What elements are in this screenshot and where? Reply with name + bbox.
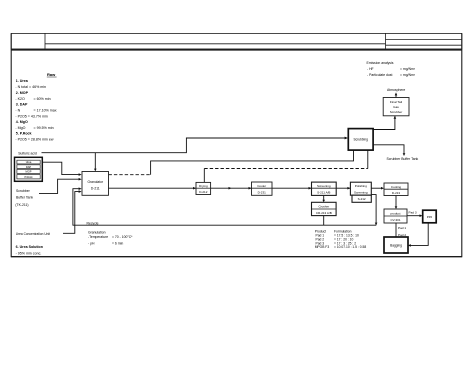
svg-text:= 6 min: = 6 min (112, 241, 123, 245)
svg-text:D-212: D-212 (199, 190, 208, 194)
bagging (384, 237, 408, 253)
title block divider right cell (385, 33, 387, 49)
wire: final tail gas scrubber to atmosphere (395, 95, 397, 98)
svg-text:D-211: D-211 (91, 186, 100, 190)
svg-text:- 95% min conc.: - 95% min conc. (16, 251, 42, 255)
urea solution note (16, 245, 43, 255)
svg-text:Scrubber: Scrubber (16, 189, 31, 193)
svg-text:P.Rock: P.Rock (24, 175, 33, 179)
wire: product to P45 (407, 215, 421, 217)
svg-text:CR-213 A/B: CR-213 A/B (316, 211, 332, 215)
wire: scrubber buffer tank to granulator (39, 179, 79, 193)
svg-text:Final Tail: Final Tail (390, 100, 402, 104)
drying D-212 (196, 182, 211, 194)
heavy line below title block (11, 49, 462, 51)
svg-text:4. MgO: 4. MgO (16, 120, 28, 124)
frame left border (10, 33, 12, 257)
bin cell MOP (17, 169, 40, 173)
title block outer rect (11, 33, 462, 49)
polishing screening (350, 182, 371, 195)
wire: drying gas risers (203, 169, 205, 183)
svg-text:Scrubbing: Scrubbing (354, 138, 369, 142)
bin cell DAP (17, 165, 40, 169)
arrow into crusher (322, 200, 325, 203)
final tail gas scrubber (383, 98, 409, 116)
svg-text:Cooling: Cooling (391, 185, 402, 189)
raw list item 1 Urea (15, 79, 56, 142)
wire: crusher to recycle (323, 216, 325, 226)
svg-text:Crusher: Crusher (318, 205, 329, 209)
bin cell Urea (17, 160, 40, 164)
wire: polishing screening return to recycle (371, 195, 376, 226)
polishing screening tag S-212 (352, 195, 371, 202)
wire: granulator gas to scrubbing (dashed part) (109, 174, 151, 176)
wire: granulator gas riser and run (151, 150, 354, 175)
svg-text:S-211 A/B: S-211 A/B (317, 191, 330, 195)
svg-text:- K2O: - K2O (15, 97, 25, 101)
arrow into drying (193, 187, 196, 190)
svg-text:product: product (390, 211, 400, 215)
screening S-211 A/B (312, 182, 337, 195)
scrubbing (348, 129, 373, 151)
P45 storage (423, 210, 437, 223)
wire: urea concentration unit to granulator (63, 192, 79, 234)
title block right cell row divider 2 (386, 44, 462, 46)
wire: scrubbing to scrubber buffer tank label (373, 145, 404, 154)
product formulation table (315, 230, 367, 250)
svg-text:Urea Concentration Unit: Urea Concentration Unit (16, 232, 50, 236)
svg-text:Granulation: Granulation (88, 231, 106, 235)
wire: bins to granulator (42, 162, 79, 174)
wire: screening to crusher (323, 195, 325, 201)
arrow into granulator: bins feed (79, 173, 82, 176)
raw material bins box (15, 157, 43, 181)
svg-text:5. P.Rock: 5. P.Rock (16, 132, 32, 136)
svg-text:D-231: D-231 (258, 191, 267, 195)
wire: recycle line (73, 189, 376, 226)
arrow mid line drying-cooler (229, 187, 232, 190)
svg-text:Urea: Urea (26, 160, 32, 164)
arrow polishing return down (375, 223, 378, 226)
arrow into scrubbing (sulfuric) (345, 137, 348, 140)
granulation condition note (88, 231, 133, 246)
wire: product to bagging (395, 223, 397, 237)
svg-text:Sulfuric acid: Sulfuric acid (18, 151, 37, 155)
arrow into bagging right (408, 244, 411, 247)
svg-text:- N total = 46% min: - N total = 46% min (15, 85, 46, 89)
svg-text:Gas: Gas (393, 105, 399, 109)
bin cell P.Rock (17, 175, 40, 179)
svg-text:Raw: Raw (47, 72, 56, 77)
arrow into granulator top (sulfuric) (94, 169, 97, 172)
svg-text:Atmosphere: Atmosphere (387, 88, 405, 92)
svg-text:D-213: D-213 (392, 191, 401, 195)
svg-text:Screening: Screening (317, 184, 331, 188)
svg-text:- HF: - HF (367, 67, 374, 71)
cooling D-213 (384, 183, 408, 196)
svg-text:= 99.5% min: = 99.5% min (34, 126, 54, 130)
cooler D-231 (252, 182, 273, 195)
wire: scrubbing to final tail gas scrubber (373, 116, 395, 130)
wire: sulfuric acid main run (42, 138, 347, 153)
svg-text:Emission analysis: Emission analysis (367, 61, 394, 65)
svg-text:Buffer Tank: Buffer Tank (16, 195, 33, 199)
svg-text:- P2O5 = 43.7% min: - P2O5 = 43.7% min (15, 114, 47, 118)
wire: sulfuric acid branch to granulator top (94, 153, 96, 169)
svg-text:MPOB F3: MPOB F3 (315, 245, 330, 249)
arrow into cooling (381, 187, 384, 190)
frame bottom border (11, 256, 462, 258)
svg-text:Pad 3: Pad 3 (409, 211, 417, 215)
svg-text:= 70 - 100°C*: = 70 - 100°C* (112, 235, 133, 239)
svg-text:Polishing: Polishing (355, 184, 368, 188)
svg-text:= 10.07.10 : 1.5 : 0.58: = 10.07.10 : 1.5 : 0.58 (334, 245, 366, 249)
arrow into product top (395, 206, 398, 209)
wire: main process line (109, 187, 351, 189)
wire: cooling to product (395, 196, 397, 208)
svg-text:1. Urea: 1. Urea (16, 79, 29, 83)
arrow into cooler (249, 187, 252, 190)
wire: drying gas dashed run (204, 168, 367, 170)
svg-text:CV-301: CV-301 (390, 218, 400, 222)
arrow into granulator: scrubber liquor (79, 178, 82, 181)
arrow into P45 (420, 214, 423, 217)
svg-text:3. DAP: 3. DAP (16, 103, 28, 107)
svg-text:Scrubber Buffer Tank: Scrubber Buffer Tank (387, 157, 419, 161)
title block right cell row divider 1 (386, 39, 462, 41)
svg-text:DAP: DAP (26, 165, 32, 169)
label: scrubber buffer tank (left) (15, 189, 33, 207)
svg-text:- pH: - pH (88, 241, 95, 245)
svg-text:(TK-211): (TK-211) (15, 203, 28, 207)
svg-text:Scrubber: Scrubber (390, 110, 403, 114)
title block divider left cell (44, 33, 46, 49)
svg-text:2. MOP: 2. MOP (16, 91, 29, 95)
arrow into screening (309, 187, 312, 190)
svg-text:S-212: S-212 (358, 197, 366, 201)
wire: P45 to bagging (410, 223, 429, 246)
svg-text:= mg/Nm³: = mg/Nm³ (400, 73, 416, 77)
arrow into granulator: urea solution (79, 190, 82, 193)
granulator D-211 (82, 172, 109, 196)
svg-text:Drying: Drying (199, 184, 208, 188)
emission analysis note (367, 61, 416, 77)
svg-text:-Temperature: -Temperature (88, 235, 108, 239)
svg-text:- MgO: - MgO (15, 126, 25, 130)
arrow into polishing screening (347, 187, 350, 190)
arrow down to scrubber buffer tank label (403, 153, 406, 156)
svg-text:Cooler: Cooler (257, 184, 266, 188)
arrow to atmosphere (395, 92, 398, 95)
svg-text:Granulator: Granulator (88, 180, 104, 184)
svg-text:= 17.10% max: = 17.10% max (34, 109, 57, 113)
svg-text:Bagging: Bagging (390, 243, 402, 247)
svg-text:- N: - N (15, 109, 20, 113)
svg-text:Pad 2: Pad 2 (398, 233, 406, 237)
raw materials list heading (47, 72, 57, 77)
svg-text:= mg/Nm³: = mg/Nm³ (400, 67, 416, 71)
svg-text:- Particulate dust: - Particulate dust (367, 73, 392, 77)
svg-text:Screening: Screening (354, 190, 368, 194)
svg-text:Pad 1: Pad 1 (398, 226, 406, 230)
arrow up into final tail gas scrubber bottom (394, 116, 397, 119)
svg-text:MOP: MOP (26, 170, 32, 174)
svg-text:- P2O5 = 28.8% min ew: - P2O5 = 28.8% min ew (15, 138, 53, 142)
svg-text:= 60% min: = 60% min (34, 97, 51, 101)
frame right border (461, 33, 463, 257)
product conveyor CV-301 (384, 209, 407, 223)
svg-text:P45: P45 (427, 215, 433, 219)
arrow into granulator: recycle (79, 187, 82, 190)
crusher CR-213 A/B (312, 202, 337, 215)
svg-text:6. Urea Solution: 6. Urea Solution (16, 245, 43, 249)
title block middle cell horizontal divider (45, 43, 386, 45)
